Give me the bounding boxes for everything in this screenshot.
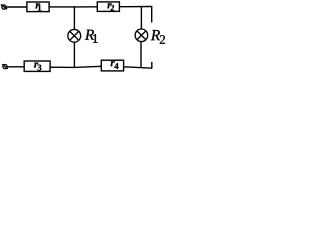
resistor r1 — [27, 2, 49, 12]
label r3 — [34, 62, 41, 70]
wire: lamp R1 down to node B — [73, 42, 75, 67]
node A (top junction) — [74, 6, 75, 7]
label r1 — [36, 3, 42, 10]
node B (bottom junction) — [74, 67, 75, 68]
wire: bottom rail r4 to bottom-right corner — [124, 67, 153, 68]
resistor r3 — [24, 61, 50, 71]
label r4 — [111, 61, 119, 69]
wire: r2 to top-right corner — [119, 6, 152, 8]
label R1 — [85, 30, 98, 43]
label R2 — [151, 30, 165, 44]
resistor r2 — [97, 2, 119, 12]
wire: top-right corner stub down — [151, 7, 153, 23]
wire: bottom terminal to r3 — [7, 66, 24, 68]
terminal T2 (bottom-left input) — [2, 64, 8, 69]
wire: bottom-right corner stub up — [151, 62, 153, 68]
wire: lamp R2 down to bottom rail — [140, 42, 142, 68]
label r2 — [107, 3, 114, 11]
wire: top rail down to lamp R2 — [140, 7, 142, 30]
wire: r3 to node B — [50, 66, 74, 68]
wire: r1 to node A — [49, 6, 74, 8]
wire: node A down to lamp R1 — [73, 7, 75, 30]
lamp R2 — [135, 29, 148, 42]
lamp R1 — [68, 29, 81, 42]
terminal T1 (top-left input) — [1, 4, 7, 9]
resistor r4 — [101, 60, 123, 71]
wire: top rail node A to r2 — [75, 6, 98, 8]
wire: top terminal to r1 — [6, 6, 27, 8]
wire: node B to r4 — [75, 66, 102, 67]
